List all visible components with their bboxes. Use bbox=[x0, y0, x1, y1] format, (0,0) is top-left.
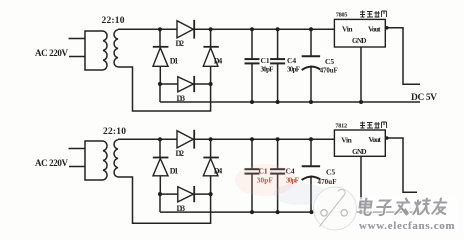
capacitor C4 bbox=[270, 29, 285, 102]
regulator U2 7812 box bbox=[334, 130, 385, 156]
diode D1 (2) bbox=[153, 139, 169, 194]
label regulator chip (Chinese) (2) bbox=[360, 122, 387, 129]
node junction D3 row right (2) bbox=[209, 192, 213, 196]
transformer secondary winding bbox=[114, 30, 118, 67]
svg-text:AC 220V: AC 220V bbox=[35, 158, 69, 168]
svg-text:D2: D2 bbox=[176, 149, 185, 158]
svg-text:GND: GND bbox=[352, 148, 367, 156]
svg-text:C5: C5 bbox=[326, 168, 335, 177]
svg-text:22:10: 22:10 bbox=[102, 16, 125, 26]
node C1 top junction (2) bbox=[250, 137, 254, 141]
node C5 top junction bbox=[309, 27, 313, 31]
diode D2 bbox=[177, 20, 194, 39]
node C4 top junction bbox=[276, 27, 280, 31]
diode D4 bbox=[203, 29, 219, 84]
node junction top rail right bbox=[209, 27, 213, 31]
transformer secondary winding (2) bbox=[114, 140, 118, 177]
svg-text:C1: C1 bbox=[261, 56, 270, 65]
svg-text:22:10: 22:10 bbox=[103, 127, 126, 137]
svg-text:Vout: Vout bbox=[368, 135, 381, 144]
diode D3 bbox=[160, 76, 211, 92]
svg-text:30pF: 30pF bbox=[287, 67, 300, 74]
node junction D3 row left (2) bbox=[158, 192, 162, 196]
diode D4 (2) bbox=[203, 139, 219, 194]
node C4 bottom junction bbox=[276, 100, 280, 104]
node C1 bottom junction bbox=[250, 100, 254, 104]
node C4 top junction (2) bbox=[276, 137, 280, 141]
wire GND pin to ground rail bbox=[360, 47, 362, 102]
node C5 bottom junction (2) bbox=[310, 210, 314, 214]
node GND pin junction (2) bbox=[359, 210, 363, 214]
svg-text:C5: C5 bbox=[325, 57, 334, 66]
capacitor C5 polarized bbox=[302, 29, 321, 102]
transformer primary winding bbox=[85, 31, 107, 70]
node junction top rail right (2) bbox=[209, 137, 213, 141]
node junction top rail left (2) bbox=[158, 137, 162, 141]
regulator U1 7805 box bbox=[334, 19, 385, 47]
wire AC input stub top bbox=[69, 38, 86, 40]
svg-text:Vout: Vout bbox=[368, 24, 381, 33]
wire Vout output (2) bbox=[385, 138, 417, 192]
svg-text:AC 220V: AC 220V bbox=[35, 48, 69, 58]
wire AC input stub bottom bbox=[69, 56, 85, 58]
watermark text dianzifashaoyou bbox=[359, 199, 448, 216]
capacitor C4 (2) bbox=[270, 139, 285, 212]
wire D1 column to ground rail (2) bbox=[159, 194, 161, 212]
svg-text:DC 5V: DC 5V bbox=[411, 93, 437, 103]
node Vout junction (2) bbox=[385, 136, 389, 140]
capacitor C1 (2) bbox=[245, 139, 260, 212]
svg-text:7812: 7812 bbox=[335, 123, 347, 130]
node C1 top junction bbox=[250, 27, 254, 31]
wire Vout output bbox=[385, 28, 420, 85]
node C1 bottom junction (2) bbox=[250, 210, 254, 214]
capacitor C1 bbox=[245, 29, 260, 102]
wire GND pin to ground rail (2) bbox=[360, 156, 362, 212]
node GND pin junction bbox=[359, 100, 363, 104]
svg-text:D2: D2 bbox=[176, 39, 185, 48]
node junction D3 row left bbox=[158, 82, 162, 86]
diode D1 bbox=[153, 29, 169, 84]
watermark logo circle bbox=[314, 187, 357, 230]
transformer primary winding (2) bbox=[85, 141, 107, 180]
wire AC input stub bottom (2) bbox=[69, 166, 85, 168]
wire AC input stub top (2) bbox=[69, 148, 86, 150]
watermark halo band bbox=[350, 197, 458, 233]
node C5 bottom junction bbox=[309, 100, 313, 104]
node junction top rail left bbox=[158, 27, 162, 31]
wire ground rail (2) bbox=[160, 211, 420, 213]
svg-text:D4: D4 bbox=[214, 57, 223, 66]
svg-text:Vin: Vin bbox=[342, 24, 353, 33]
capacitor C5 polarized (2) bbox=[302, 139, 321, 212]
label regulator chip (Chinese) bbox=[360, 11, 387, 18]
wire top rail bbox=[118, 28, 334, 30]
diode D2 (2) bbox=[177, 130, 194, 149]
node junction D3 row right bbox=[209, 82, 213, 86]
svg-text:470uF: 470uF bbox=[320, 68, 338, 75]
diode D3 (2) bbox=[160, 186, 211, 202]
svg-text:C4: C4 bbox=[287, 56, 296, 65]
node Vout junction bbox=[385, 26, 389, 30]
svg-text:30pF: 30pF bbox=[261, 67, 274, 74]
svg-text:www.elecfans.com: www.elecfans.com bbox=[359, 220, 455, 232]
wire secondary bottom return bbox=[118, 67, 211, 111]
svg-text:D1: D1 bbox=[170, 167, 179, 176]
node C5 top junction (2) bbox=[309, 137, 313, 141]
svg-text:D4: D4 bbox=[214, 167, 223, 176]
node C4 bottom junction (2) bbox=[276, 210, 280, 214]
wire secondary bottom return (2) bbox=[118, 177, 211, 223]
svg-text:D1: D1 bbox=[170, 57, 179, 66]
wire ground rail bbox=[160, 101, 420, 103]
svg-text:Vin: Vin bbox=[341, 136, 352, 145]
svg-text:470uF: 470uF bbox=[318, 178, 337, 186]
wire D1 column to ground rail bbox=[159, 84, 161, 102]
svg-text:GND: GND bbox=[352, 37, 367, 45]
wire top rail (2) bbox=[118, 138, 334, 140]
svg-text:7805: 7805 bbox=[336, 12, 348, 19]
watermark tint blobs bbox=[235, 164, 295, 196]
